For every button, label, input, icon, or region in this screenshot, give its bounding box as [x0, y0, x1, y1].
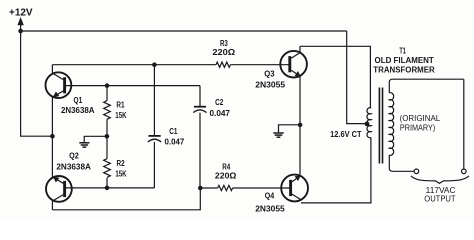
svg-text:Q3: Q3: [264, 68, 274, 78]
wire: supply drop to center tap: [347, 31, 367, 124]
junction: emitter ground node: [298, 123, 303, 128]
wire: node to R4: [200, 187, 217, 189]
svg-text:15K: 15K: [115, 168, 127, 178]
svg-text:T1: T1: [399, 45, 406, 55]
svg-text:R2: R2: [117, 158, 125, 168]
junction: R1/R2 midpoint: [105, 134, 110, 139]
svg-text:Q2: Q2: [69, 151, 79, 161]
output terminal right: [462, 169, 467, 174]
wire: secondary bottom to output: [389, 155, 414, 171]
wire: Q3 emitter / Q4 emitter vertical: [299, 76, 301, 176]
wire: Q4 collector to transformer primary bottom: [301, 138, 371, 203]
svg-text:Q1: Q1: [74, 95, 83, 105]
wire: R3 to Q3 base: [230, 64, 289, 66]
junction: Q2 base / R2 bottom: [105, 186, 110, 191]
wire: Q2 base line to C1: [66, 187, 155, 189]
svg-text:TRANSFORMER: TRANSFORMER: [373, 64, 435, 74]
svg-text:15K: 15K: [115, 110, 127, 120]
svg-text:+12V: +12V: [9, 8, 33, 19]
svg-text:2N3055: 2N3055: [255, 79, 285, 89]
junction: center tap: [365, 122, 370, 127]
wire: Q1 base line: [66, 85, 201, 87]
junction: emitter tie point: [50, 134, 55, 139]
resistor R4: [218, 185, 233, 190]
resistor R2: [104, 159, 111, 188]
wire: Q2 collector drop: [51, 201, 53, 210]
wire: +12V top rail: [21, 30, 347, 32]
svg-text:Q4: Q4: [265, 191, 275, 201]
output terminal left: [414, 169, 419, 174]
+12V arrow: [20, 25, 22, 31]
svg-text:220Ω: 220Ω: [215, 171, 237, 181]
transformer T1 primary winding (12.6V CT): [367, 108, 371, 138]
svg-text:12.6V CT: 12.6V CT: [330, 130, 362, 139]
wire: R4 to Q4 base: [233, 187, 290, 189]
svg-text:C1: C1: [169, 126, 177, 136]
svg-text:PRIMARY): PRIMARY): [400, 122, 436, 132]
wire: stub to ground 2: [279, 125, 301, 133]
transistor Q3: [280, 51, 307, 78]
wire: Q1 collector line to R3 (node A): [52, 64, 216, 66]
junction: Q1 base / R1 top: [105, 83, 110, 88]
ground 2: [273, 133, 283, 137]
svg-text:C2: C2: [215, 97, 223, 107]
ground 1: [79, 143, 89, 147]
wire: bottom rail Q2 collector to C2 node: [52, 188, 200, 210]
svg-text:2N3638A: 2N3638A: [56, 161, 91, 171]
wire: Q1 emitter / Q2 emitter vertical: [51, 97, 53, 177]
resistor R1: [104, 86, 111, 159]
svg-text:R1: R1: [116, 99, 124, 109]
wire: Q3 collector to transformer primary top: [300, 46, 370, 108]
wire: secondary top to output: [389, 79, 464, 93]
transistor Q1: [46, 72, 72, 98]
svg-text:220Ω: 220Ω: [212, 47, 235, 57]
svg-text:OUTPUT: OUTPUT: [424, 195, 455, 204]
wire: left supply drop to emitters: [21, 31, 53, 136]
svg-text:0.047: 0.047: [165, 136, 185, 146]
transistor Q2: [46, 176, 72, 202]
brace under output: [411, 176, 469, 184]
transformer T1 core: [378, 88, 380, 164]
junction: node A / C1 top: [152, 62, 157, 67]
svg-text:0.047: 0.047: [210, 108, 231, 118]
wire: Q3 collector riser: [299, 46, 301, 53]
transistor Q4: [281, 175, 308, 202]
svg-text:2N3638A: 2N3638A: [61, 105, 95, 115]
wire: stub to ground 1: [84, 136, 107, 142]
junction: +12V node: [18, 29, 23, 34]
svg-text:2N3055: 2N3055: [255, 204, 285, 214]
junction: C2 / R4 / bottom rail node: [198, 186, 203, 191]
resistor R3: [216, 62, 230, 67]
wire: output right drop: [463, 79, 465, 169]
capacitor C1: [148, 65, 161, 188]
transformer T1 secondary winding (original primary): [389, 93, 393, 156]
svg-text:OLD FILAMENT: OLD FILAMENT: [375, 55, 435, 65]
wire: Q1 collector riser: [51, 65, 53, 73]
capacitor C2: [193, 86, 206, 188]
